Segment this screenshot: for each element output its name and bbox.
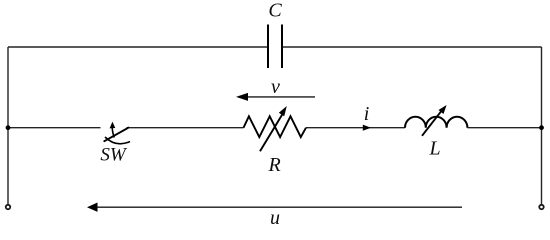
- inductor L variable arrowhead: [439, 105, 447, 114]
- resistor R variable arrow shaft: [260, 114, 282, 151]
- wire top left: [8, 46, 267, 48]
- wire left vertical: [7, 47, 9, 204]
- svg-text:i: i: [364, 103, 370, 125]
- switch SW blade: [104, 128, 128, 142]
- wire middle: resistor to inductor: [306, 127, 405, 129]
- wire top right: [283, 46, 542, 48]
- svg-text:v: v: [271, 76, 280, 98]
- svg-text:C: C: [268, 0, 282, 22]
- node dot left: [6, 125, 11, 130]
- current arrowhead i: [363, 125, 371, 131]
- svg-text:R: R: [267, 154, 280, 176]
- voltage arrow u shaft: [96, 206, 462, 208]
- switch SW motion arc: [105, 137, 130, 144]
- node dot right: [539, 125, 544, 130]
- wire right vertical: [541, 47, 543, 204]
- switch SW motion arrow shaft: [112, 128, 114, 138]
- switch SW motion arrowhead: [110, 122, 116, 129]
- inductor L coils: [405, 117, 467, 128]
- wire middle: switch to resistor: [127, 127, 244, 129]
- terminal right: [539, 205, 543, 209]
- svg-text:u: u: [270, 207, 280, 227]
- voltage arrow v shaft: [245, 96, 315, 98]
- capacitor C1 plates: [268, 25, 282, 69]
- terminal left: [6, 205, 10, 209]
- wire middle: inductor to right node: [467, 127, 541, 129]
- voltage arrow v head: [236, 93, 248, 101]
- resistor R variable arrowhead: [279, 106, 287, 116]
- inductor L variable arrow shaft: [422, 110, 442, 136]
- svg-text:SW: SW: [100, 145, 128, 166]
- resistor R zigzag: [244, 116, 307, 137]
- wire middle: left node to switch: [8, 127, 101, 129]
- svg-text:L: L: [428, 138, 440, 160]
- voltage arrow u head: [87, 203, 98, 212]
